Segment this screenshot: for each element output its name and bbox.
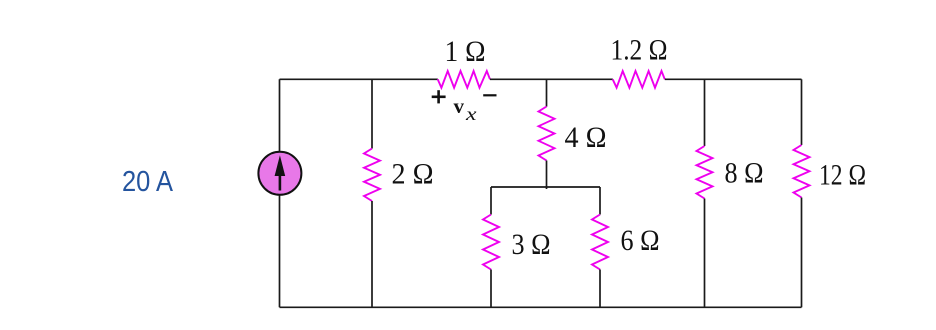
wire bottom: [280, 306, 802, 308]
wire 3ohm branch lower: [490, 270, 492, 308]
wire 12ohm right branch lower: [801, 198, 803, 308]
wire middle horizontal: [491, 186, 600, 188]
wire 8ohm branch lower: [704, 199, 706, 308]
svg-text:v: v: [454, 94, 465, 118]
resistor R3 2 ohm (vertical zigzag): [364, 149, 380, 202]
wire 6ohm branch upper: [599, 187, 601, 215]
wire 6ohm branch lower: [599, 270, 601, 308]
svg-text:8 Ω: 8 Ω: [725, 157, 764, 190]
svg-text:2 Ω: 2 Ω: [392, 158, 434, 191]
wire 8ohm branch upper: [704, 79, 706, 146]
wire top-right segment: [665, 78, 802, 80]
current source I1 circle: [258, 152, 301, 195]
resistor R4 4 ohm (vertical zigzag): [539, 107, 555, 161]
svg-text:6 Ω: 6 Ω: [621, 224, 660, 257]
svg-text:1.2 Ω: 1.2 Ω: [611, 34, 668, 67]
svg-text:1 Ω: 1 Ω: [445, 35, 486, 68]
wire 12ohm right branch upper: [801, 79, 803, 145]
resistor R2 1.2 ohm (horizontal zigzag): [613, 71, 665, 88]
svg-text:3 Ω: 3 Ω: [512, 228, 551, 261]
svg-text:4 Ω: 4 Ω: [565, 121, 607, 154]
current source arrow: [275, 155, 286, 190]
resistor R8 12 ohm (vertical zigzag): [794, 145, 810, 198]
label plus sign of vx: [432, 90, 446, 103]
wire 2ohm branch lower: [371, 201, 373, 307]
svg-text:20 A: 20 A: [122, 166, 174, 198]
svg-text:12 Ω: 12 Ω: [819, 159, 866, 192]
label minus sign of vx: [483, 94, 496, 96]
wire 3ohm branch upper: [490, 187, 492, 215]
resistor R1 1 ohm (horizontal zigzag): [438, 71, 490, 88]
label vx: [454, 94, 477, 124]
wire left branch with source: [279, 79, 281, 307]
resistor R7 8 ohm (vertical zigzag): [697, 146, 713, 199]
wire 4ohm branch upper: [546, 79, 548, 106]
wire 2ohm branch upper: [371, 79, 373, 148]
resistor R6 6 ohm (vertical zigzag): [592, 215, 608, 270]
svg-text:x: x: [465, 104, 477, 124]
resistor R5 3 ohm (vertical zigzag): [483, 215, 499, 270]
wire top-left segment: [280, 78, 438, 80]
wire top-middle segment: [490, 78, 613, 80]
wire 4ohm branch lower: [546, 161, 548, 190]
